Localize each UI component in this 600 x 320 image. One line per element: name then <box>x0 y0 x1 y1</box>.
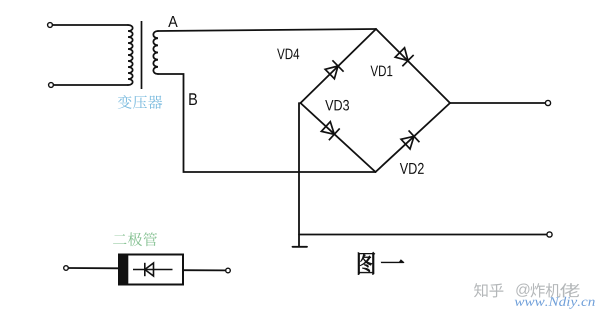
node B / wire secondary bottom to bridge bottom <box>158 74 376 172</box>
wire <box>54 84 128 86</box>
diode package cathode band <box>119 254 129 286</box>
watermark zhihu handle <box>474 283 503 297</box>
wire positive output <box>450 102 546 104</box>
label VD1 <box>371 66 393 76</box>
diode VD4 <box>324 60 343 79</box>
label diode (Chinese) <box>113 232 157 246</box>
wire bridge edge left-bottom <box>301 103 376 172</box>
transformer T1 primary winding <box>128 25 133 85</box>
watermark www.Ndiy.cn <box>515 297 595 309</box>
wire <box>68 267 119 269</box>
label transformer (Chinese) <box>118 95 163 109</box>
label VD3 <box>325 100 349 111</box>
wire <box>183 269 226 271</box>
wire bridge edge bottom-right <box>376 103 451 172</box>
transformer T1 primary terminal top <box>48 23 53 28</box>
label VD2 <box>400 163 424 174</box>
diode VD2 <box>400 130 419 150</box>
diode package body <box>119 255 183 285</box>
ground <box>293 246 308 248</box>
diode package left terminal <box>64 266 69 271</box>
label VD4 <box>277 49 299 59</box>
transformer T1 secondary winding <box>153 31 158 74</box>
label B <box>189 93 197 105</box>
caption figure one (Chinese) <box>358 252 375 275</box>
diode package right terminal <box>226 268 231 273</box>
wire negative node down from bridge left <box>298 103 300 247</box>
transformer T1 primary terminal bottom <box>49 83 54 88</box>
wire bridge edge top-right <box>376 29 450 103</box>
terminal negative output <box>547 232 552 237</box>
transformer T1 core <box>141 21 143 89</box>
diode VD3 <box>320 121 339 141</box>
wire bridge edge top-left <box>301 29 377 103</box>
label A <box>168 16 178 27</box>
terminal positive output <box>545 100 550 105</box>
wire <box>53 24 128 26</box>
wire negative output <box>299 234 547 236</box>
diode VD1 <box>394 47 413 66</box>
node A / wire secondary top to bridge top <box>158 29 376 31</box>
diode symbol inside package <box>133 263 173 276</box>
